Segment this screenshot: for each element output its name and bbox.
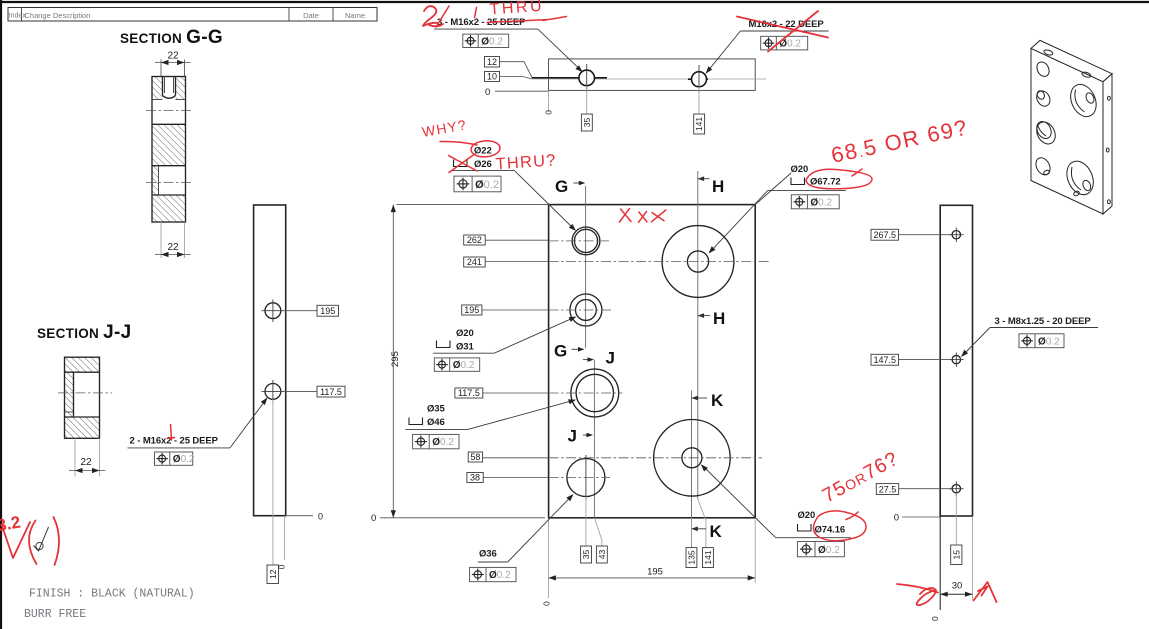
red ellipse around Ø67.72 <box>806 169 872 189</box>
H label mid <box>698 309 726 328</box>
svg-text:K: K <box>711 391 724 410</box>
svg-text:117.5: 117.5 <box>320 387 342 397</box>
svg-text:Ø20: Ø20 <box>798 510 816 521</box>
svg-text:J: J <box>606 349 615 368</box>
svg-text:Ø0.2: Ø0.2 <box>1038 336 1060 347</box>
top view hole A <box>579 64 595 92</box>
leader 3 - M16x2 - 25 DEEP <box>434 17 583 72</box>
iso top face <box>1031 40 1112 81</box>
svg-text:262: 262 <box>467 235 482 245</box>
hole h3 cb Ø35/Ø46 at 43,117.5 <box>571 369 619 417</box>
svg-text:Ø0.2: Ø0.2 <box>432 437 454 448</box>
leader block Ø36 <box>478 494 574 562</box>
svg-text:195: 195 <box>464 305 479 315</box>
gdt frame (2-M16x2) <box>155 452 193 465</box>
iso hole f3 cb <box>1033 119 1059 147</box>
dim line 58 <box>468 452 482 462</box>
svg-text:3 - M8x1.25 - 20 DEEP: 3 - M8x1.25 - 20 DEEP <box>995 316 1092 327</box>
right view hole at 147.5 <box>949 352 964 367</box>
svg-text:12: 12 <box>487 57 497 67</box>
section J-J body <box>58 357 112 438</box>
dim line 262 <box>464 235 486 245</box>
svg-text:BURR FREE: BURR FREE <box>24 608 86 621</box>
leader block Ø35/Ø46 <box>405 399 576 429</box>
svg-text:147.5: 147.5 <box>874 355 897 365</box>
red X over M16x2-22DEEP <box>737 17 828 38</box>
svg-text:SECTION J-J: SECTION J-J <box>37 322 132 343</box>
svg-text:SECTION G-G: SECTION G-G <box>120 27 223 48</box>
right side view outline <box>940 205 972 516</box>
K section line <box>691 391 693 548</box>
hole big top cb Ø67.72 at 141,241 <box>662 226 734 298</box>
svg-text:0: 0 <box>894 513 899 524</box>
leader block Ø20/Ø31 <box>433 317 576 354</box>
red blob around Ø74.16 <box>813 511 866 541</box>
svg-text:35: 35 <box>581 550 591 560</box>
gdt frame (M8x1.25) <box>1019 334 1064 348</box>
svg-text:27.5: 27.5 <box>879 484 897 494</box>
top view outline <box>549 59 756 91</box>
svg-text:12: 12 <box>268 569 278 579</box>
right view hole at 27.5 <box>949 482 964 497</box>
svg-text:Ø0.2: Ø0.2 <box>810 197 832 208</box>
svg-text:241: 241 <box>467 257 482 267</box>
black surface finish symbol <box>34 527 49 551</box>
dim box 195 (left side view) <box>284 310 317 312</box>
gdt frame (Ø35/Ø46) <box>413 434 459 448</box>
svg-text:195: 195 <box>320 306 335 316</box>
svg-text:0: 0 <box>485 87 490 98</box>
svg-text:10: 10 <box>487 72 497 82</box>
svg-text:0: 0 <box>544 110 554 115</box>
revision table <box>8 8 377 22</box>
J section line <box>593 360 595 518</box>
iso hole f4 <box>1033 155 1053 177</box>
svg-text:22: 22 <box>167 242 179 253</box>
bottom 195 dimension <box>542 520 756 606</box>
red overwrite 2 on M16x2 <box>168 425 175 441</box>
bottom boxes 35 43 135 141 <box>585 497 587 547</box>
svg-text:Ø20: Ø20 <box>456 328 474 339</box>
svg-text:267.5: 267.5 <box>874 230 897 240</box>
svg-text:Ø0.2: Ø0.2 <box>818 545 840 556</box>
svg-text:Ø36: Ø36 <box>479 549 497 560</box>
section G-G centerlines <box>146 110 193 112</box>
K label bottom <box>691 522 722 541</box>
svg-text:Ø0.2: Ø0.2 <box>481 36 503 47</box>
svg-text:Ø0.2: Ø0.2 <box>173 454 195 465</box>
svg-text:295: 295 <box>390 351 401 367</box>
left side view hole at 117.5 <box>262 380 285 403</box>
red X X X <box>620 209 666 223</box>
iso hole big bottom cb <box>1062 157 1099 199</box>
red WHY? + circle + X + THRU? <box>421 116 557 173</box>
svg-text:38: 38 <box>470 473 480 483</box>
dim line 117.5 <box>455 388 483 398</box>
svg-text:Ø67.72: Ø67.72 <box>810 177 841 188</box>
gdt frame (Ø22/Ø26) <box>454 176 501 192</box>
svg-text:22: 22 <box>80 457 92 468</box>
svg-text:H: H <box>712 177 724 196</box>
svg-text:3 - M16x2 - 25 DEEP: 3 - M16x2 - 25 DEEP <box>437 17 526 28</box>
leader block Ø20/Ø74.16 <box>701 464 851 537</box>
svg-text:Ø46: Ø46 <box>427 417 445 428</box>
svg-text:58: 58 <box>470 452 480 462</box>
iso hole f2 cb <box>1034 89 1052 109</box>
top view bold cut line <box>532 77 607 79</box>
gdt frame (3-M16x2) <box>463 34 509 47</box>
svg-text:22: 22 <box>167 51 179 62</box>
svg-text:Date: Date <box>303 11 319 20</box>
gdt frame (Ø67.72) <box>791 195 839 209</box>
section G-G body <box>146 77 193 223</box>
dim box 12 <box>485 57 500 68</box>
G label top <box>555 177 585 196</box>
dim box 10 <box>485 72 500 82</box>
section G-G bottom dimension 22 <box>155 222 191 258</box>
svg-text:117.5: 117.5 <box>458 388 480 398</box>
svg-text:0: 0 <box>277 564 287 569</box>
left side view hole at 195 <box>262 300 285 323</box>
leader 2 - M16x2 - 25 DEEP <box>128 398 268 448</box>
drawing frame left border <box>0 0 2 629</box>
section J-J bottom dimension 22 <box>69 438 106 476</box>
hole h2 cb Ø20/Ø31 at 35,195 <box>570 294 602 326</box>
drawing frame top border <box>0 1 1149 3</box>
top view hole B <box>692 65 707 93</box>
top view lower ref lines <box>548 90 550 112</box>
red 3.2 + check + parens <box>0 512 59 565</box>
svg-text:0: 0 <box>542 601 552 606</box>
G label mid <box>554 342 585 361</box>
hole h4 Ø36 at 35,38 <box>567 459 605 497</box>
svg-text:Ø0.2: Ø0.2 <box>475 179 499 191</box>
dim box 117.5 (left side view) <box>284 390 317 392</box>
right view hole at 267.5 <box>949 228 964 243</box>
J label bottom <box>568 427 594 446</box>
svg-text:J: J <box>568 427 577 446</box>
svg-text:Ø20: Ø20 <box>791 164 809 175</box>
iso side face holes <box>1108 96 1111 100</box>
section G-G top dimension 22 <box>155 51 191 77</box>
svg-text:K: K <box>710 522 723 541</box>
top view gray centerline <box>532 78 766 80</box>
svg-text:0: 0 <box>930 616 940 621</box>
svg-text:35: 35 <box>582 118 592 128</box>
gdt frame (Ø20/Ø31) <box>434 358 479 371</box>
svg-text:G: G <box>554 342 567 361</box>
right view bottom dims <box>930 493 973 621</box>
svg-text:Ø0.2: Ø0.2 <box>453 360 475 371</box>
leader M16x2 - 22 DEEP <box>706 19 829 74</box>
svg-text:G: G <box>555 177 568 196</box>
section J-J centerline <box>58 392 112 394</box>
top view bold segment right <box>688 78 708 80</box>
svg-text:141: 141 <box>703 550 713 564</box>
svg-text:195: 195 <box>647 567 663 578</box>
dim line 241 <box>464 257 486 267</box>
iso top face holes <box>1043 49 1053 56</box>
hole h1 cb Ø22/Ø26 at 35,262 <box>572 227 600 255</box>
bottom lines of left side view: 12 and 0 <box>267 399 323 584</box>
svg-text:Ø31: Ø31 <box>456 342 474 353</box>
svg-text:Name: Name <box>345 11 365 20</box>
svg-text:Ø0.2: Ø0.2 <box>489 570 511 581</box>
plan view outline <box>549 205 756 518</box>
svg-text:Ø74.16: Ø74.16 <box>815 525 846 536</box>
gdt frame (M16x2-22DEEP) <box>761 36 808 50</box>
J label top <box>583 349 615 368</box>
K label top <box>691 391 724 410</box>
leader block Ø20/Ø67.72 <box>709 164 847 254</box>
hole big bottom cb Ø74.16 at 135,58 <box>654 420 731 497</box>
red markup: 2 over 3, slash, THRU, strike <box>423 0 567 27</box>
svg-text:H: H <box>713 309 725 328</box>
svg-text:0: 0 <box>318 512 323 522</box>
svg-text:141: 141 <box>694 117 704 131</box>
H label top <box>698 176 725 196</box>
svg-text:135: 135 <box>687 550 697 564</box>
dim line 195 <box>462 305 482 315</box>
iso front face <box>1031 48 1103 214</box>
leader block Ø22/Ø26 <box>452 146 576 232</box>
iso side face <box>1103 74 1112 214</box>
svg-text:Ø26: Ø26 <box>474 159 492 170</box>
svg-text:15: 15 <box>951 550 961 560</box>
gdt frame (Ø74.16) <box>797 542 844 557</box>
svg-text:0: 0 <box>371 513 376 524</box>
svg-text:43: 43 <box>597 550 607 560</box>
dim line 38 <box>467 473 483 483</box>
svg-text:Change Description: Change Description <box>25 11 91 20</box>
H section line <box>697 171 699 499</box>
red scribble left of 30 <box>897 584 938 605</box>
leader 3 - M8x1.25 - 20 DEEP <box>961 316 1098 357</box>
left side view outline <box>254 205 286 516</box>
svg-text:Ø35: Ø35 <box>427 404 445 415</box>
G section line <box>585 186 587 348</box>
iso hole big top cb <box>1066 80 1101 120</box>
iso hole f1 <box>1034 60 1051 79</box>
gdt frame (Ø36) <box>470 567 516 581</box>
295 vertical dimension <box>371 205 549 524</box>
svg-text:30: 30 <box>952 581 963 592</box>
svg-text:FINISH : BLACK (NATURAL): FINISH : BLACK (NATURAL) <box>29 588 195 601</box>
red scribble right of 30 <box>974 582 997 602</box>
